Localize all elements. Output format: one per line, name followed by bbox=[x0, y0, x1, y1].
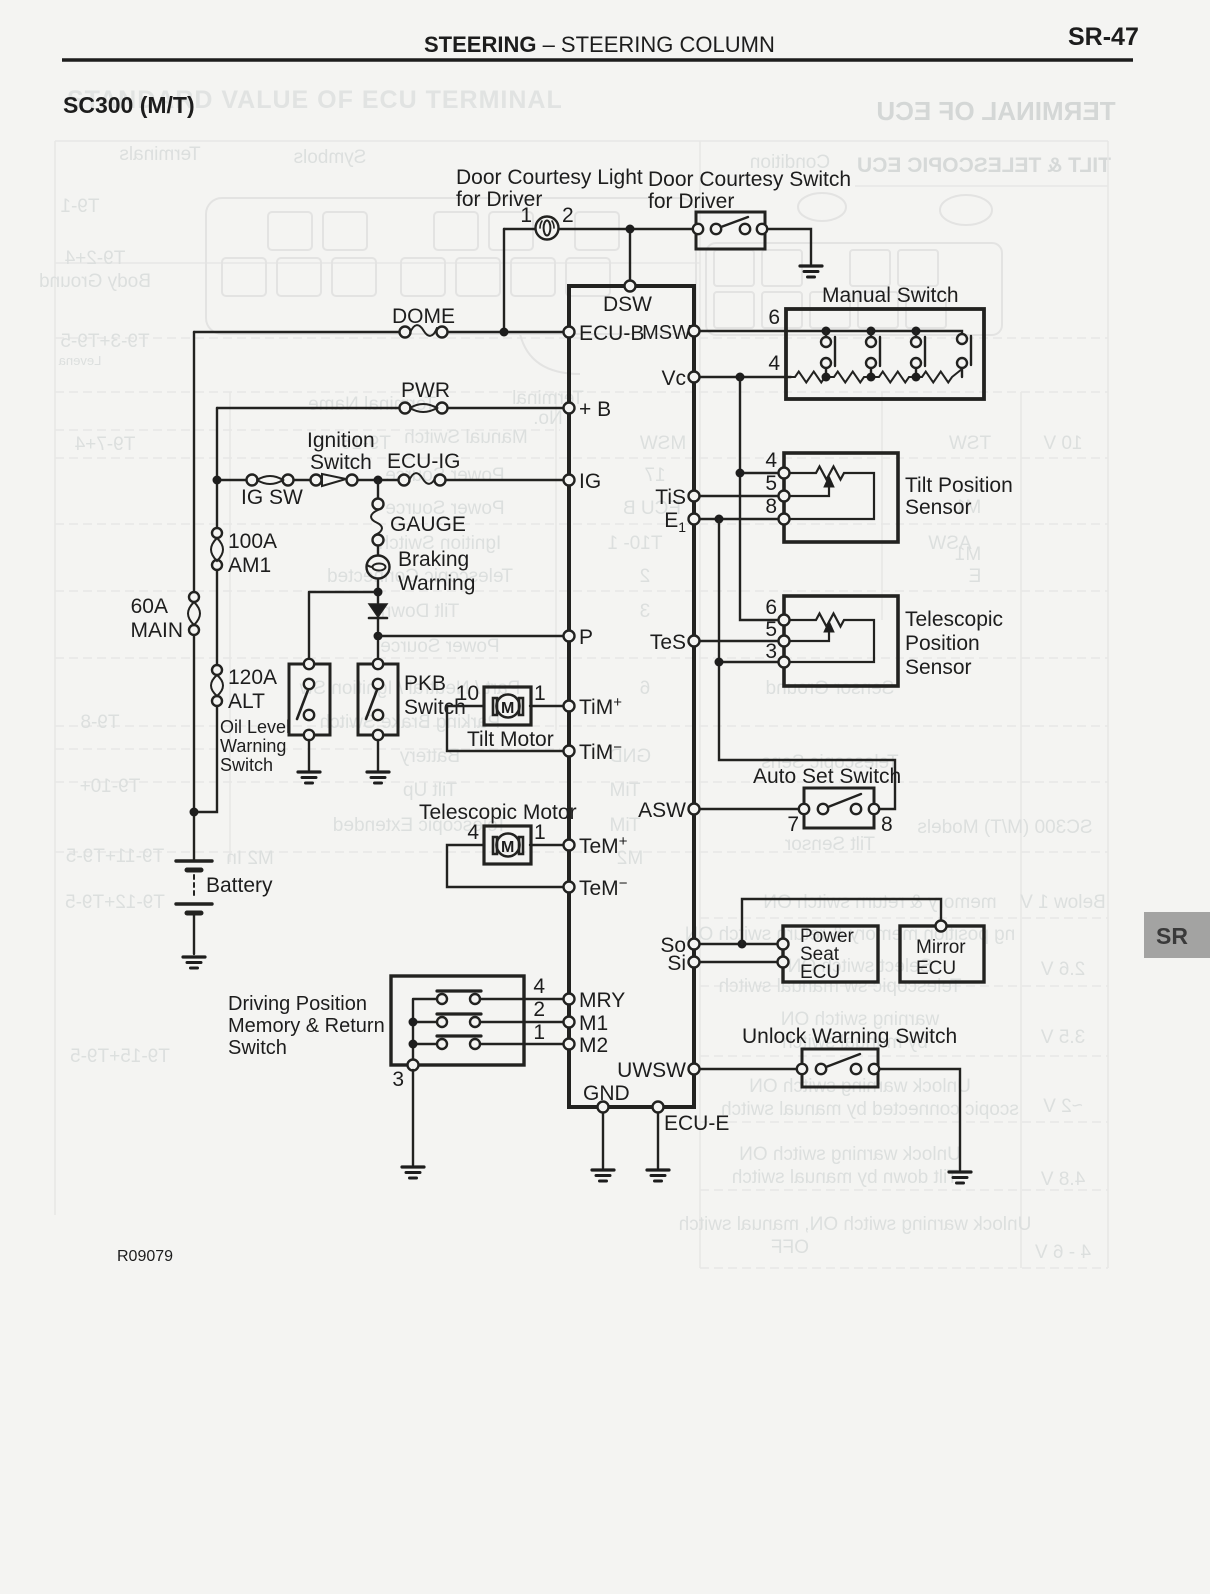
sensor: tilt position sensor box bbox=[784, 453, 898, 542]
resistor: tilt sensor bbox=[790, 467, 874, 520]
svg-text:Tilt Motor: Tilt Motor bbox=[467, 728, 554, 751]
SR thumb tab bbox=[1144, 912, 1210, 958]
svg-text:Unlock warning switch ON: Unlock warning switch ON bbox=[739, 1144, 961, 1165]
svg-text:OFF: OFF bbox=[771, 1237, 809, 1258]
fuse DOME bbox=[400, 327, 411, 338]
svg-text:120A: 120A bbox=[228, 666, 277, 689]
svg-text:Tilt Down: Tilt Down bbox=[381, 601, 459, 622]
wire: memory switch pin3 to ground bbox=[412, 1070, 414, 1165]
svg-text:Body Ground: Body Ground bbox=[39, 271, 151, 292]
svg-text:T9-11+T9-5: T9-11+T9-5 bbox=[66, 846, 164, 867]
svg-text:Power Source: Power Source bbox=[380, 636, 499, 657]
svg-text:T10- 1: T10- 1 bbox=[608, 533, 663, 554]
svg-text:Unlock warning switch ON, manu: Unlock warning switch ON, manual switch bbox=[679, 1214, 1032, 1235]
node: junction memory switch common row2 bbox=[409, 1018, 418, 1027]
svg-text:DOME: DOME bbox=[392, 305, 455, 328]
ghost connector drawing left bbox=[206, 193, 992, 374]
terminal: TeM- bbox=[564, 882, 575, 893]
resistor: manual switch chain bbox=[791, 369, 962, 383]
svg-text:60A: 60A bbox=[131, 595, 168, 618]
terminal: Si bbox=[689, 957, 700, 968]
svg-text:M1: M1 bbox=[955, 544, 981, 565]
svg-text:memory & return switch ON: memory & return switch ON bbox=[763, 892, 996, 913]
ground: ECU-E terminal bbox=[647, 1170, 669, 1181]
node: junction telescopic pin3 feed bbox=[715, 658, 724, 667]
node: junction on courtesy line bbox=[626, 225, 635, 234]
svg-text:6: 6 bbox=[765, 596, 777, 619]
svg-text:Unlock Warning Switch: Unlock Warning Switch bbox=[742, 1025, 957, 1048]
labels on ECU terminals bbox=[579, 293, 729, 1135]
ghost mirrored table row texts bbox=[39, 144, 1106, 1263]
node: junction Vc drop bbox=[736, 373, 745, 382]
svg-text:MRY: MRY bbox=[579, 989, 625, 1012]
switch: oil level warning switch bbox=[289, 664, 330, 735]
terminal: ASW bbox=[689, 804, 700, 815]
svg-text:Position: Position bbox=[905, 632, 980, 655]
terminal: TeM+ bbox=[564, 840, 575, 851]
svg-text:1: 1 bbox=[534, 682, 546, 705]
terminal: ECU-B bbox=[564, 327, 575, 338]
wire: unlock switch to ground bbox=[880, 1069, 960, 1170]
terminal: MRY bbox=[564, 994, 575, 1005]
svg-text:ECU-IG: ECU-IG bbox=[387, 450, 461, 473]
svg-text:M2: M2 bbox=[579, 1034, 608, 1057]
svg-text:M2 In: M2 In bbox=[226, 848, 274, 869]
wire: IG line bbox=[217, 479, 563, 481]
motor: tilt motor bbox=[484, 687, 531, 725]
svg-text:Battery: Battery bbox=[206, 874, 273, 897]
svg-text:T9-15+T9-5: T9-15+T9-5 bbox=[70, 1046, 170, 1067]
svg-text:2: 2 bbox=[533, 998, 545, 1021]
svg-text:GAUGE: GAUGE bbox=[390, 513, 466, 536]
svg-text:MSW: MSW bbox=[640, 433, 687, 454]
node: junction memory switch common row3 bbox=[409, 1040, 418, 1049]
node: tilt sensor pin 4 bbox=[779, 468, 790, 479]
svg-text:T9-7+4: T9-7+4 bbox=[74, 434, 135, 455]
node: memory switch pin 3 on box edge bbox=[408, 1060, 419, 1071]
svg-text:10 V: 10 V bbox=[1043, 433, 1082, 454]
switch: door courtesy switch for driver bbox=[696, 212, 765, 249]
wire: Vc line 4 with resistor chain bbox=[694, 376, 791, 378]
switch: manual switch leg3 bbox=[916, 331, 925, 377]
svg-text:Mirror: Mirror bbox=[916, 937, 966, 958]
terminal: TeS bbox=[689, 636, 700, 647]
node: junction leg1 top bbox=[822, 327, 831, 336]
svg-text:STEERING – STEERING COLUMN: STEERING – STEERING COLUMN bbox=[424, 32, 775, 57]
sensor: telescopic position sensor box bbox=[784, 596, 898, 686]
svg-text:4: 4 bbox=[765, 449, 777, 472]
node: junction P line bbox=[374, 632, 383, 641]
svg-text:DSW: DSW bbox=[603, 293, 652, 316]
ghost table frame lines bbox=[55, 141, 1108, 1268]
svg-text:TERMINAL OF ECU: TERMINAL OF ECU bbox=[876, 96, 1115, 126]
svg-text:Tilt Position: Tilt Position bbox=[905, 474, 1013, 497]
ECU box bbox=[569, 286, 694, 1107]
svg-text:Switch: Switch bbox=[228, 1037, 287, 1059]
node: junction oil-level branch bbox=[374, 588, 383, 597]
ghost connector drawing right bbox=[706, 243, 1002, 335]
motor: telescopic motor bbox=[484, 826, 531, 864]
svg-text:3.5 V: 3.5 V bbox=[1040, 1027, 1085, 1048]
wiper: telescopic sensor arrow bbox=[790, 630, 829, 641]
wire: left rail from DOME line down to battery bbox=[193, 332, 195, 861]
svg-text:No.: No. bbox=[533, 408, 563, 429]
wiper: tilt sensor arrow bbox=[790, 485, 829, 496]
terminal: IG bbox=[564, 475, 575, 486]
switch: ignition switch symbol bbox=[311, 475, 322, 486]
svg-text:Door Courtesy Switch: Door Courtesy Switch bbox=[648, 168, 851, 191]
svg-text:M1: M1 bbox=[579, 1012, 608, 1035]
svg-text:MAIN: MAIN bbox=[131, 619, 184, 642]
node: telescopic sensor pin 5 bbox=[779, 636, 790, 647]
svg-text:1: 1 bbox=[533, 1021, 545, 1044]
wire: So branch to mirror ECU bbox=[742, 899, 941, 944]
wire: telescopic motor to TeM+ bbox=[530, 844, 563, 846]
terminal: TiS bbox=[689, 491, 700, 502]
svg-text:17: 17 bbox=[644, 465, 665, 486]
wire: E1 to sensor pin 8 bbox=[694, 518, 778, 520]
svg-text:5: 5 bbox=[765, 472, 777, 495]
terminal: TiM- bbox=[564, 746, 575, 757]
terminal: M1 bbox=[564, 1017, 575, 1028]
svg-text:SR: SR bbox=[1156, 923, 1188, 949]
svg-text:3: 3 bbox=[765, 640, 777, 663]
node: telescopic sensor pin 6 bbox=[779, 615, 790, 626]
wire: MSW line 6 into manual switch bbox=[694, 331, 962, 334]
node: junction leg3 top bbox=[912, 327, 921, 336]
wire: GAUGE branch vertical bbox=[377, 480, 379, 658]
wire: Si line bbox=[694, 961, 777, 963]
svg-text:P: P bbox=[579, 626, 593, 649]
ground: GND terminal bbox=[592, 1170, 614, 1181]
fuse IG SW bbox=[247, 475, 258, 486]
wire: TiS to sensor pin 5 bbox=[694, 495, 778, 497]
svg-text:PKB: PKB bbox=[404, 672, 446, 695]
svg-text:Tilt Sensor: Tilt Sensor bbox=[784, 834, 875, 855]
svg-text:Telescopic: Telescopic bbox=[905, 608, 1003, 631]
svg-text:TILT & TELESCOPIC ECU: TILT & TELESCOPIC ECU bbox=[857, 154, 1111, 177]
box: mirror ECU bbox=[900, 926, 984, 982]
svg-text:Vc: Vc bbox=[661, 367, 686, 390]
svg-text:Ignition: Ignition bbox=[307, 429, 375, 452]
svg-text:Switch: Switch bbox=[310, 451, 372, 474]
switch: unlock warning switch bbox=[802, 1049, 878, 1087]
svg-text:Telescopic Motor: Telescopic Motor bbox=[419, 801, 577, 824]
node: junction rails join bbox=[190, 808, 199, 817]
svg-text:E1: E1 bbox=[664, 509, 686, 535]
svg-text:TiM: TiM bbox=[610, 780, 641, 801]
svg-text:T9-2+4: T9-2+4 bbox=[64, 248, 125, 269]
svg-text:TiM+: TiM+ bbox=[579, 694, 622, 719]
switch: manual switch leg2 bbox=[871, 331, 880, 377]
svg-text:Tilt Up: Tilt Up bbox=[403, 780, 457, 801]
node: junction courtesy light drop bbox=[500, 328, 509, 337]
svg-text:Below 1 V: Below 1 V bbox=[1020, 892, 1106, 913]
svg-text:Manual Switch: Manual Switch bbox=[404, 427, 528, 448]
svg-text:ECU-B: ECU-B bbox=[579, 322, 644, 345]
node: junction leg1 bottom bbox=[822, 373, 831, 382]
svg-text:PWR: PWR bbox=[401, 379, 450, 402]
wire: vertical from courtesy light to DOME line bbox=[503, 229, 505, 332]
terminal: ECU-E bbox=[653, 1102, 664, 1113]
svg-text:AM1: AM1 bbox=[228, 554, 271, 577]
node: junction tilt sensor feed bbox=[736, 469, 745, 478]
node: junction So to mirror ECU bbox=[738, 940, 747, 949]
svg-text:2: 2 bbox=[562, 204, 574, 227]
svg-text:4.8 V: 4.8 V bbox=[1040, 1169, 1085, 1190]
node: junction rail2 at IG line bbox=[213, 476, 222, 485]
svg-text:ECU: ECU bbox=[916, 958, 956, 979]
terminal: MSW bbox=[689, 326, 700, 337]
svg-text:SC300 (M/T) Models: SC300 (M/T) Models bbox=[917, 817, 1092, 838]
wire: telescopic motor loop to TeM- bbox=[447, 845, 563, 887]
svg-text:Switch: Switch bbox=[220, 755, 273, 775]
wire: ECU-E terminal to ground bbox=[657, 1112, 659, 1168]
svg-text:2.6 V: 2.6 V bbox=[1040, 959, 1085, 980]
wire: oil level switch to ground bbox=[308, 740, 310, 770]
wire: GND terminal to ground bbox=[602, 1112, 604, 1168]
svg-text:Levena: Levena bbox=[58, 353, 101, 368]
svg-text:6: 6 bbox=[640, 678, 651, 699]
svg-text:T9-12+T9-5: T9-12+T9-5 bbox=[65, 892, 165, 913]
fuse 100A AM1 bbox=[212, 528, 222, 538]
svg-text:1: 1 bbox=[534, 821, 546, 844]
wire: ASW line bbox=[694, 808, 799, 810]
node: junction GAUGE branch bbox=[374, 476, 383, 485]
svg-text:2: 2 bbox=[640, 566, 651, 587]
diode bbox=[369, 604, 387, 617]
wire: +B / PWR line bbox=[217, 407, 563, 409]
svg-text:for Driver: for Driver bbox=[648, 190, 734, 213]
wire: UWSW line bbox=[694, 1068, 797, 1070]
svg-text:8: 8 bbox=[881, 813, 893, 836]
wire: second rail from +B line down bbox=[198, 408, 217, 812]
wire: PKB switch to ground bbox=[377, 740, 379, 770]
switch: manual switch leg4 bbox=[962, 336, 971, 377]
fuse ECU-IG bbox=[399, 475, 410, 486]
wire: TeS to telescopic pin 5 bbox=[694, 640, 778, 642]
svg-text:Sensor: Sensor bbox=[905, 656, 972, 679]
switch: manual switch leg1 bbox=[826, 331, 835, 377]
svg-text:SR-47: SR-47 bbox=[1068, 23, 1139, 51]
svg-text:Tilt down by manual switch: Tilt down by manual switch bbox=[732, 1167, 958, 1188]
svg-text:Door Courtesy Light: Door Courtesy Light bbox=[456, 166, 643, 189]
svg-text:ALT: ALT bbox=[228, 690, 265, 713]
ground: PKB switch bbox=[367, 772, 389, 783]
wire: DOME / ECU-B line bbox=[194, 331, 563, 333]
fuse 120A ALT bbox=[212, 665, 222, 675]
wire: Vc vertical to sensors bbox=[740, 377, 778, 620]
node: junction leg2 bottom bbox=[867, 373, 876, 382]
svg-text:IG SW: IG SW bbox=[241, 486, 303, 509]
battery bbox=[176, 859, 212, 862]
svg-text:Warning: Warning bbox=[220, 736, 286, 756]
wire: courtesy switch to ground bbox=[768, 229, 811, 264]
svg-text:IG: IG bbox=[579, 470, 601, 493]
svg-text:for Driver: for Driver bbox=[456, 188, 542, 211]
resistor: telescopic sensor bbox=[790, 614, 874, 663]
wire: tilt motor loop to TiM- bbox=[447, 706, 563, 751]
svg-text:5: 5 bbox=[765, 618, 777, 641]
terminal: UWSW bbox=[689, 1064, 700, 1075]
fuse 60A MAIN bbox=[189, 592, 199, 602]
terminal: TiM+ bbox=[564, 701, 575, 712]
svg-text:4: 4 bbox=[768, 352, 780, 375]
ground: door courtesy switch bbox=[800, 266, 822, 277]
node: telescopic sensor pin 3 bbox=[779, 657, 790, 668]
terminal: Vc bbox=[689, 372, 700, 383]
svg-text:T9-3+T9-5: T9-3+T9-5 bbox=[60, 331, 149, 352]
svg-text:R09079: R09079 bbox=[117, 1248, 173, 1265]
node: tilt sensor pin 8 bbox=[779, 514, 790, 525]
switch: manual switch box bbox=[786, 309, 984, 399]
wire: P line to ECU bbox=[378, 635, 563, 637]
ground: unlock warning switch bbox=[949, 1172, 971, 1183]
terminal: E1 bbox=[689, 514, 700, 525]
switch: driving position memory & return switch bbox=[391, 976, 524, 1065]
fuse PWR bbox=[400, 403, 411, 414]
svg-text:Warning: Warning bbox=[398, 572, 475, 595]
svg-text:M: M bbox=[501, 839, 514, 856]
node: junction E1 drop bbox=[715, 515, 724, 524]
terminal: +B bbox=[564, 403, 575, 414]
ground: memory switch bbox=[402, 1167, 424, 1178]
node: tilt sensor pin 5 bbox=[779, 491, 790, 502]
ground: battery bbox=[183, 957, 205, 968]
lamp: door courtesy light bulb bbox=[536, 217, 559, 240]
ground: oil level switch bbox=[298, 772, 320, 783]
svg-text:Terminals: Terminals bbox=[119, 144, 200, 165]
svg-text:T9-8: T9-8 bbox=[80, 712, 119, 733]
svg-text:ASW: ASW bbox=[638, 799, 686, 822]
svg-text:UWSW: UWSW bbox=[617, 1059, 686, 1082]
svg-text:6: 6 bbox=[768, 306, 780, 329]
terminal: So bbox=[689, 939, 700, 950]
terminal: DSW bbox=[625, 281, 636, 292]
switch: auto set switch bbox=[804, 788, 874, 828]
svg-text:4: 4 bbox=[533, 975, 545, 998]
node: junction leg2 top bbox=[867, 327, 876, 336]
fuse GAUGE bbox=[373, 499, 384, 510]
svg-text:Braking: Braking bbox=[398, 548, 469, 571]
svg-text:+ B: + B bbox=[579, 398, 611, 421]
svg-text:GND: GND bbox=[583, 1082, 630, 1105]
svg-text:Memory & Return: Memory & Return bbox=[228, 1015, 385, 1037]
svg-text:10: 10 bbox=[456, 682, 479, 705]
svg-text:7: 7 bbox=[787, 813, 799, 836]
svg-text:100A: 100A bbox=[228, 530, 277, 553]
svg-text:Driving Position: Driving Position bbox=[228, 993, 367, 1015]
svg-text:MSW: MSW bbox=[642, 322, 691, 344]
switch: PKB switch bbox=[358, 664, 398, 735]
svg-text:Si: Si bbox=[667, 952, 686, 975]
svg-text:ECU: ECU bbox=[800, 962, 840, 983]
svg-text:Auto Set Switch: Auto Set Switch bbox=[753, 765, 901, 788]
header rule bbox=[62, 58, 1133, 62]
svg-text:~2 V: ~2 V bbox=[1043, 1096, 1083, 1117]
wire: E1 vertical and branch to telescopic pin 3 bbox=[719, 519, 895, 809]
svg-text:TeM−: TeM− bbox=[579, 875, 628, 900]
svg-text:T9-10+: T9-10+ bbox=[80, 776, 141, 797]
svg-text:Oil Level: Oil Level bbox=[220, 717, 290, 737]
svg-text:4 - 6 V: 4 - 6 V bbox=[1035, 1242, 1091, 1263]
node: junction leg3 bottom bbox=[912, 373, 921, 382]
svg-text:T9-1: T9-1 bbox=[60, 196, 99, 217]
terminal: P bbox=[564, 631, 575, 642]
svg-text:8: 8 bbox=[765, 495, 777, 518]
wire: vertical junction to DSW terminal bbox=[629, 229, 631, 280]
svg-text:3: 3 bbox=[640, 601, 651, 622]
svg-text:Battery: Battery bbox=[399, 746, 460, 767]
svg-text:SC300 (M/T): SC300 (M/T) bbox=[63, 92, 195, 118]
terminal: M2 bbox=[564, 1039, 575, 1050]
svg-text:TiS: TiS bbox=[655, 486, 686, 509]
wire: tilt motor to TiM+ bbox=[530, 705, 563, 707]
svg-text:TSW: TSW bbox=[949, 433, 991, 454]
svg-text:M2: M2 bbox=[617, 848, 643, 869]
wire: So line bbox=[694, 943, 777, 945]
svg-text:ECU-E: ECU-E bbox=[664, 1112, 729, 1135]
terminal: GND bbox=[598, 1102, 609, 1113]
svg-text:Symbols: Symbols bbox=[294, 147, 367, 168]
svg-text:TeS: TeS bbox=[650, 631, 686, 654]
svg-text:scopic connected by manual swi: scopic connected by manual switch bbox=[721, 1099, 1019, 1120]
box: power seat ECU bbox=[783, 926, 878, 982]
wire: branch to oil level warning switch bbox=[309, 592, 374, 658]
svg-text:Sensor: Sensor bbox=[905, 496, 972, 519]
svg-text:3: 3 bbox=[392, 1068, 404, 1091]
svg-text:4: 4 bbox=[467, 821, 479, 844]
svg-text:E: E bbox=[969, 566, 982, 587]
wire: courtesy light line bbox=[504, 228, 694, 230]
svg-text:M: M bbox=[501, 700, 514, 717]
svg-text:Manual Switch: Manual Switch bbox=[822, 284, 959, 307]
lamp: braking warning bbox=[367, 556, 390, 579]
